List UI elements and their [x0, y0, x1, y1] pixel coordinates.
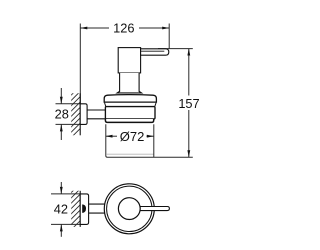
- outer circle (holder ring, top view): [104, 184, 154, 234]
- wall plate (bottom view): [80, 194, 88, 225]
- wire: faint glass-width baseline: [106, 153, 153, 155]
- pump head block: [118, 48, 140, 73]
- spout inner line: [141, 50, 165, 52]
- wire: dim 157 top extension line: [158, 48, 193, 50]
- arrowhead O72 left: [106, 135, 113, 138]
- glass bottom: [105, 119, 153, 122]
- screw hole marker (filled half disc): [82, 204, 86, 213]
- wire: dim 28 top extension line: [56, 103, 81, 105]
- wire: dim 126 dimension line: [80, 27, 169, 29]
- glass crest (bottle shoulder): [104, 95, 156, 103]
- arrowhead 42 bottom (pointing up): [60, 224, 63, 231]
- svg-text:157: 157: [178, 96, 199, 111]
- arrowhead 126 left: [80, 27, 87, 30]
- wire: dim 42 bottom extension line: [51, 223, 80, 225]
- svg-text:42: 42: [54, 202, 68, 217]
- wire: dim 126 extension line right: [168, 24, 170, 49]
- wall surface line (bottom view): [79, 191, 81, 227]
- wall hatching (side view): [66, 82, 84, 142]
- wall plate (side view mount): [80, 104, 87, 125]
- wire: dim 157 dimension line: [188, 49, 190, 158]
- rim circle: [107, 186, 152, 231]
- svg-text:126: 126: [113, 20, 134, 35]
- pump stem: [117, 73, 141, 93]
- wire: dim O72 extension line right: [153, 124, 155, 157]
- arrowhead 126 right: [162, 27, 169, 30]
- spout (side view): [141, 49, 169, 55]
- wire: dim 42 top extension line: [51, 193, 80, 195]
- arrowhead 157 top: [187, 49, 190, 56]
- crest-to-band taper right: [155, 103, 156, 107]
- arrowhead 28 bottom (pointing up): [60, 124, 63, 131]
- wire: dim 28 bottom extension line: [56, 123, 81, 125]
- svg-text:Ø72: Ø72: [120, 129, 145, 144]
- wire: dim O72 dimension line: [106, 135, 154, 137]
- wire: dim 42 arrow leaders: [60, 182, 62, 237]
- svg-text:28: 28: [55, 106, 69, 121]
- arrowhead O72 right: [147, 135, 154, 138]
- arm (bottom view): [89, 204, 106, 213]
- wall hatching (bottom view): [66, 180, 84, 235]
- arrowhead 42 top (pointing down): [60, 187, 63, 194]
- crest-to-band taper left: [105, 103, 106, 107]
- wall surface line (side view): [79, 93, 81, 135]
- holder ring band: [105, 107, 155, 119]
- arrowhead 157 bottom: [187, 150, 190, 157]
- wire: dim 126 extension line left: [79, 24, 81, 104]
- arm (side view): [87, 110, 105, 119]
- pump circle: [118, 198, 140, 220]
- wire: dim 28 arrow leaders: [60, 88, 62, 140]
- wire: dim 157 bottom extension line with baseline to glass: [106, 124, 193, 157]
- spout bar (bottom view): [140, 207, 169, 211]
- arrowhead 28 top (pointing down): [60, 97, 63, 104]
